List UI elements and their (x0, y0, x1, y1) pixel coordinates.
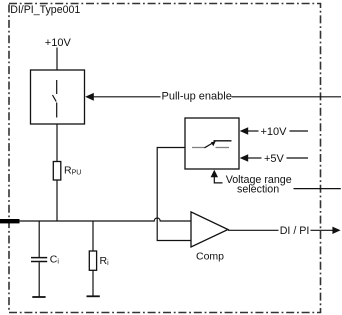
resistor R_PU (53, 162, 61, 181)
selector contact common (gray) (192, 147, 205, 149)
output arrowhead (332, 227, 340, 234)
pull-up enable arrowhead (85, 93, 94, 101)
wire +5V select (right) (287, 157, 309, 159)
pull-up switch box (31, 70, 85, 124)
input terminal bar (0, 219, 20, 223)
svg-text:DI / PI: DI / PI (280, 225, 310, 237)
selector contact +10V side (214, 140, 232, 142)
wire +10V to switch box (56, 48, 58, 71)
svg-text:+10V: +10V (261, 126, 288, 138)
+10V select arrowhead (240, 127, 249, 134)
wire pull-up enable (left segment) (94, 96, 161, 98)
wire pull-up enable (right segment) (232, 96, 342, 98)
ground (R_i) (87, 295, 100, 297)
op-amp comparator (191, 212, 228, 247)
svg-text:+5V: +5V (264, 153, 285, 165)
ground (C_i) (32, 296, 45, 298)
svg-text:DI/PI_Type001: DI/PI_Type001 (10, 4, 80, 16)
wire comparator output (228, 229, 279, 231)
svg-text:+10V: +10V (45, 37, 72, 49)
svg-text:Comp: Comp (196, 250, 224, 262)
capacitor C_i (31, 221, 47, 297)
wire voltage range selection to border (294, 188, 341, 190)
wire switch box to R_PU (56, 124, 58, 162)
resistor R_i (89, 221, 96, 296)
voltage range selection arrowhead (211, 170, 218, 178)
selector contact +5V side (gray) (216, 147, 230, 149)
switch contact (pull-up switch) (53, 80, 57, 118)
wire R_PU to input node (56, 180, 58, 221)
wire input node with hop over reference wire (19, 218, 191, 221)
leader voltage range selection (214, 177, 222, 183)
wire +10V select (248, 130, 259, 132)
wire reference to comparator (157, 148, 191, 241)
wire +10V select (right) (290, 130, 309, 132)
wire +5V select (248, 157, 262, 159)
selector blade with arrowhead (205, 143, 213, 147)
voltage range selection box (185, 118, 239, 169)
wire output to border (311, 229, 334, 231)
svg-text:selection: selection (237, 184, 279, 196)
+5V select arrowhead (240, 154, 249, 161)
svg-text:Pull-up enable: Pull-up enable (162, 90, 232, 102)
